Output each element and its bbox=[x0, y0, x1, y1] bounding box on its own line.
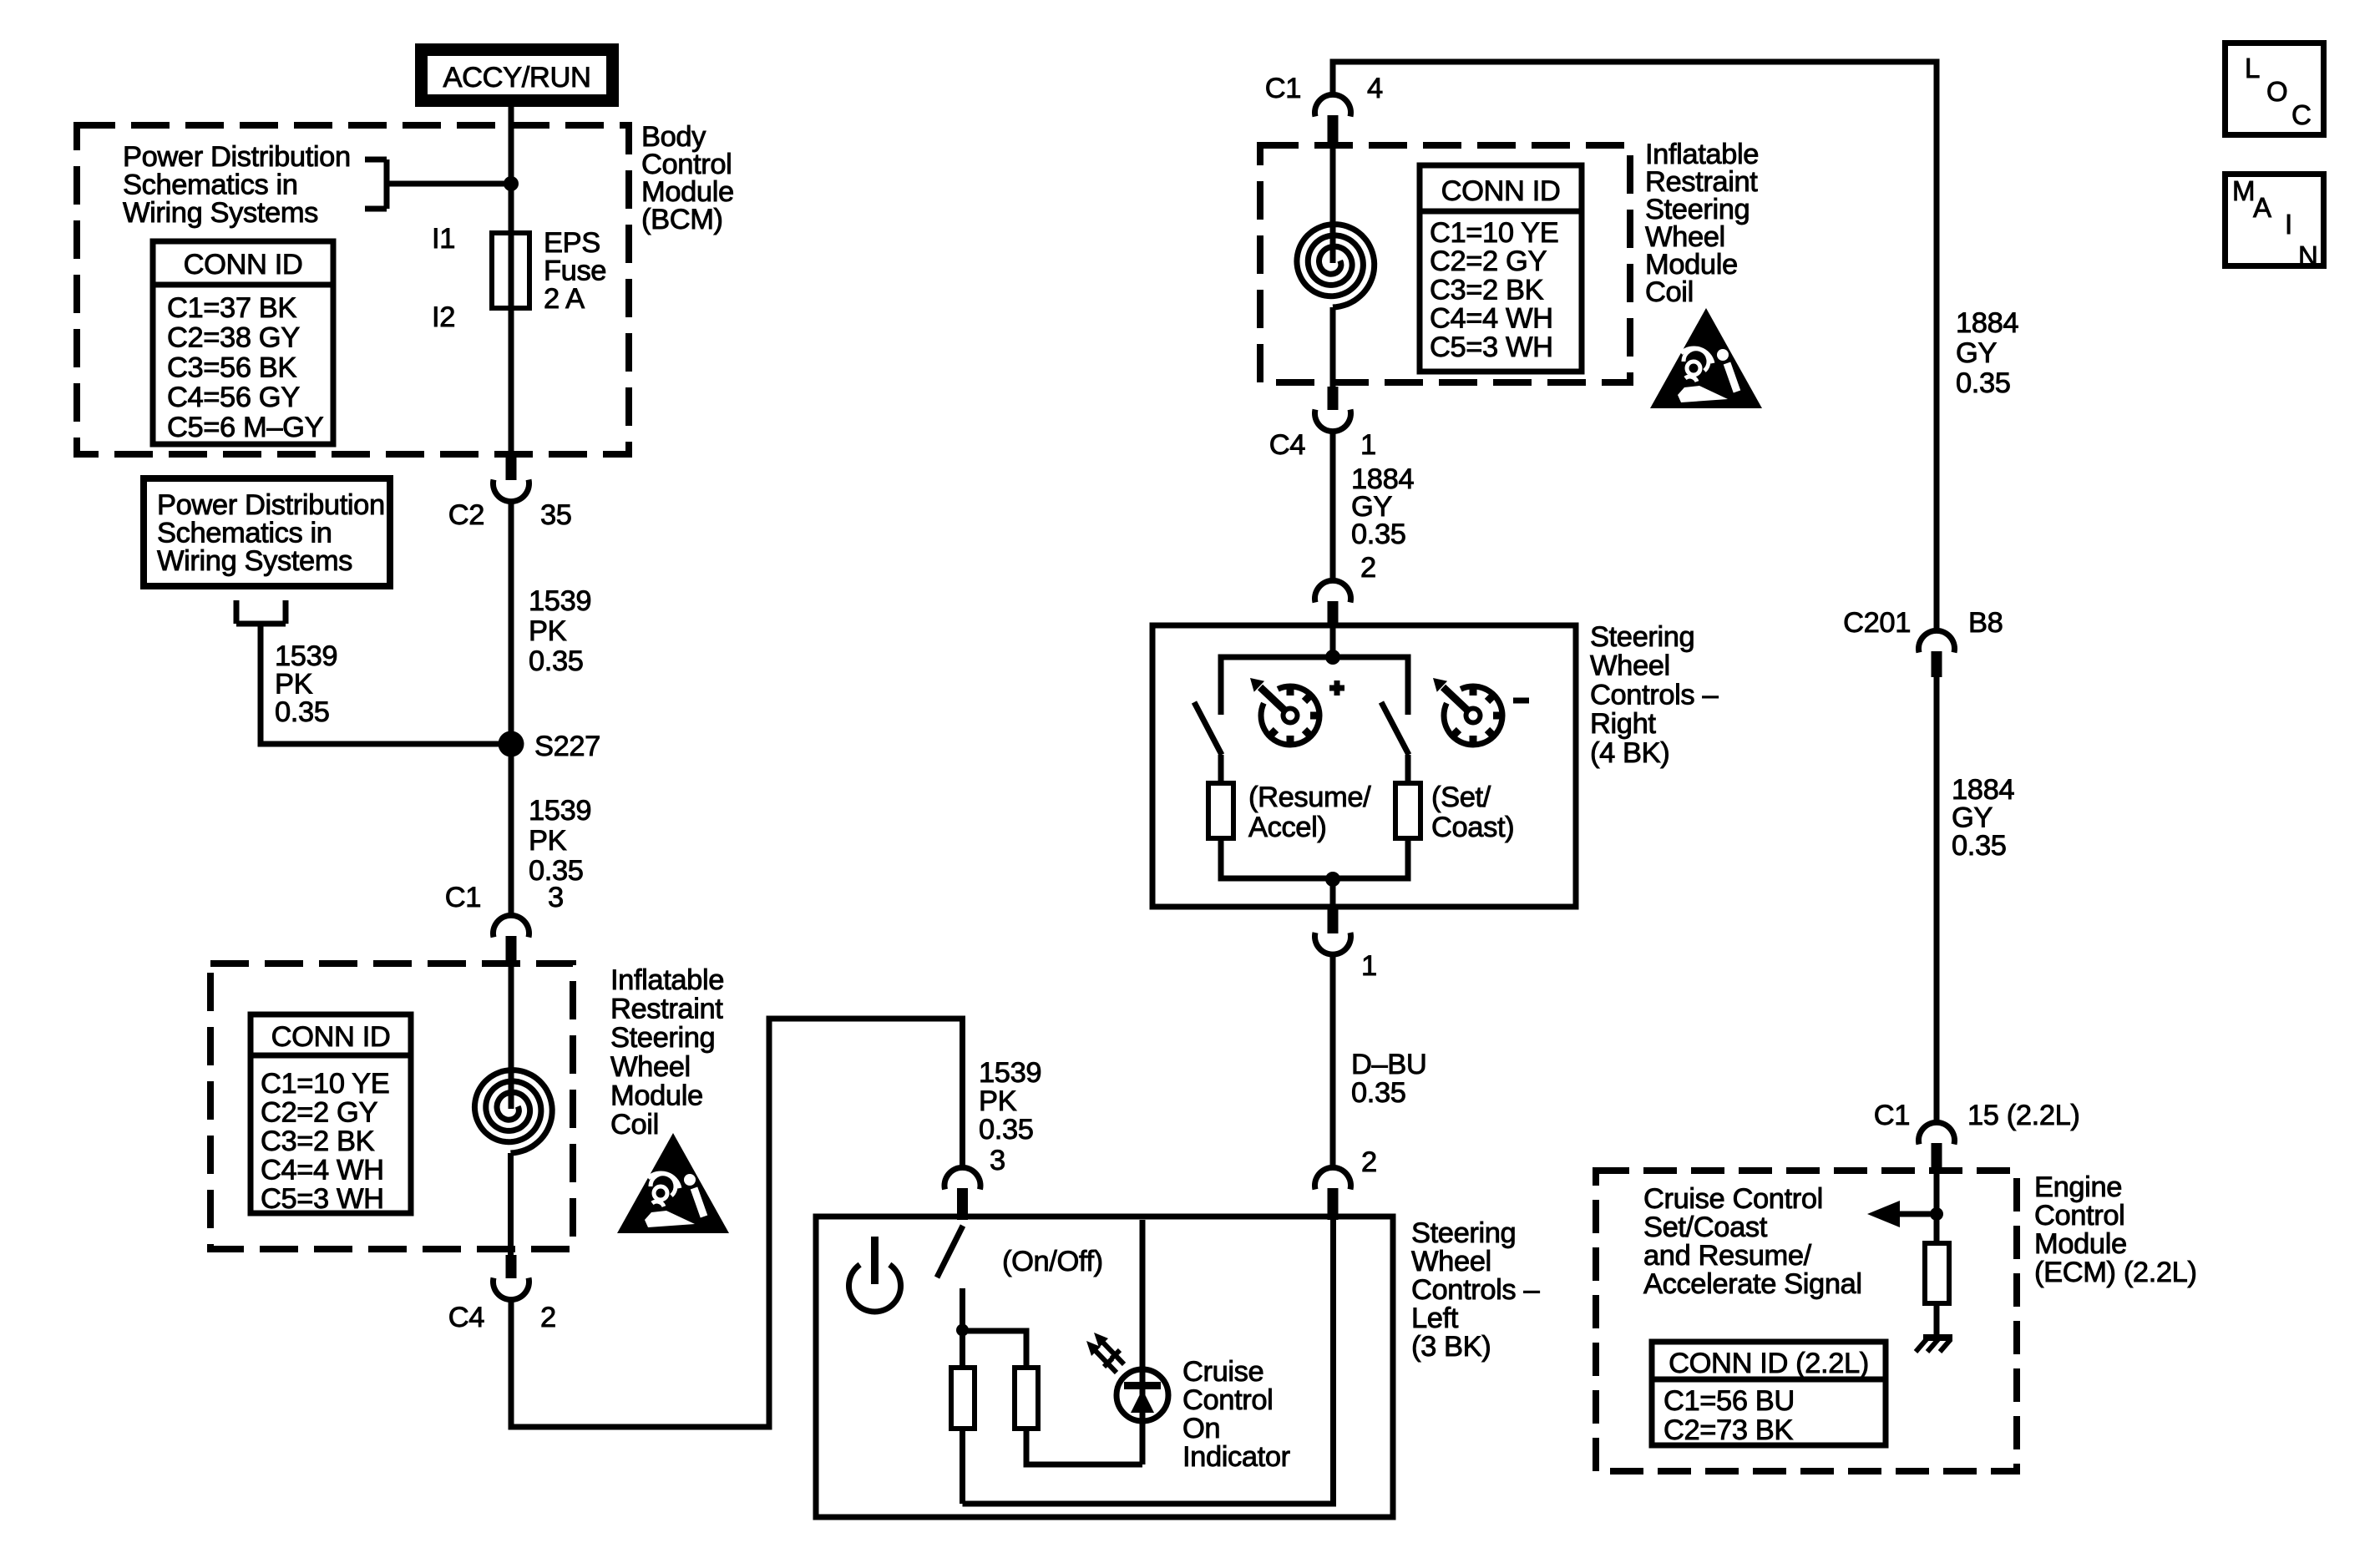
wire out of left coil bbox=[508, 1153, 514, 1255]
svg-text:Schematics in: Schematics in bbox=[157, 518, 332, 549]
wire reference box to S227 bbox=[261, 624, 511, 744]
label EPS Fuse 2 A bbox=[544, 227, 606, 315]
wire into top coil bbox=[1330, 144, 1336, 263]
svg-text:C1: C1 bbox=[445, 882, 481, 913]
svg-text:Steering: Steering bbox=[1590, 621, 1694, 653]
svg-text:Left: Left bbox=[1411, 1303, 1459, 1334]
svg-text:CONN ID: CONN ID bbox=[1441, 175, 1561, 207]
svg-text:Controls –: Controls – bbox=[1590, 679, 1719, 711]
switch blade (set/coast) bbox=[1381, 702, 1409, 755]
svg-text:C2=2 GY: C2=2 GY bbox=[1430, 245, 1547, 277]
svg-text:C2=73 BK: C2=73 BK bbox=[1663, 1414, 1793, 1446]
wire C4 to switch pin 3 bbox=[511, 1019, 963, 1427]
svg-text:CONN ID: CONN ID bbox=[271, 1021, 391, 1053]
svg-text:PK: PK bbox=[529, 825, 567, 857]
svg-text:C2=2 GY: C2=2 GY bbox=[261, 1097, 377, 1129]
svg-text:C: C bbox=[2291, 99, 2311, 130]
label Power Distribution Schematics reference (BCM) bbox=[123, 141, 351, 229]
svg-text:0.35: 0.35 bbox=[1956, 367, 2011, 399]
Steering Wheel Controls Left box bbox=[816, 1217, 1393, 1517]
minus sign bbox=[1513, 698, 1529, 704]
svg-text:C1=56 BU: C1=56 BU bbox=[1663, 1385, 1795, 1417]
svg-text:Coast): Coast) bbox=[1431, 812, 1514, 843]
svg-text:C3=2 BK: C3=2 BK bbox=[261, 1126, 375, 1157]
svg-text:I: I bbox=[2285, 209, 2292, 240]
wire R1 to bottom rail bbox=[960, 1429, 965, 1504]
svg-text:1539: 1539 bbox=[979, 1057, 1041, 1089]
label Engine Control Module (ECM) (2.2L) bbox=[2034, 1171, 2197, 1288]
Inflatable Restraint Steering Wheel Module Coil dashed box (top) bbox=[1260, 145, 1630, 382]
svg-text:Cruise Control: Cruise Control bbox=[1643, 1183, 1823, 1215]
svg-text:O: O bbox=[2266, 76, 2287, 107]
svg-text:B8: B8 bbox=[1968, 607, 2003, 639]
wire pin2 into box bbox=[1330, 625, 1336, 657]
svg-text:Wheel: Wheel bbox=[1590, 650, 1670, 682]
svg-text:(ECM) (2.2L): (ECM) (2.2L) bbox=[2034, 1257, 2197, 1288]
svg-text:EPS: EPS bbox=[544, 227, 600, 259]
svg-text:Wheel: Wheel bbox=[1411, 1246, 1491, 1277]
svg-text:Wiring Systems: Wiring Systems bbox=[123, 197, 318, 229]
svg-text:PK: PK bbox=[979, 1085, 1017, 1117]
CONN ID (2.2L) table bbox=[1652, 1342, 1886, 1446]
resistor R2 bbox=[1015, 1368, 1038, 1429]
svg-text:Accel): Accel) bbox=[1248, 812, 1326, 843]
label Cruise Control On Indicator bbox=[1182, 1356, 1290, 1473]
connector pin 2 (left controls) bbox=[1315, 1167, 1351, 1220]
gauge icon (resume/accel) bbox=[1250, 678, 1321, 746]
svg-text:15 (2.2L): 15 (2.2L) bbox=[1967, 1100, 2079, 1131]
svg-text:2: 2 bbox=[1361, 1146, 1377, 1178]
wire 1884 GY to right controls bbox=[1330, 429, 1336, 581]
power feed box ACCY/RUN bbox=[422, 50, 613, 101]
fuse EPS Fuse 2 A bbox=[492, 233, 529, 308]
junction node (signal tap) bbox=[1930, 1207, 1943, 1221]
svg-text:L: L bbox=[2245, 53, 2260, 83]
svg-text:Controls –: Controls – bbox=[1411, 1274, 1540, 1306]
svg-text:Power Distribution: Power Distribution bbox=[157, 489, 385, 521]
svg-text:C4=4 WH: C4=4 WH bbox=[261, 1155, 384, 1186]
svg-text:Module: Module bbox=[2034, 1228, 2127, 1260]
wire into left coil bbox=[509, 964, 514, 1109]
reference box Power Distribution Schematics in Wiring Systems bbox=[144, 478, 390, 586]
svg-text:Restraint: Restraint bbox=[610, 994, 723, 1025]
svg-text:A: A bbox=[2253, 192, 2271, 223]
resistor (ECM pull) bbox=[1925, 1243, 1949, 1303]
svg-text:M: M bbox=[2232, 175, 2255, 206]
wire D-BU to left controls bbox=[1330, 952, 1336, 1168]
svg-text:(Resume/: (Resume/ bbox=[1248, 782, 1371, 813]
wire 1539 PK S227 to C1 bbox=[509, 744, 514, 916]
CONN ID table (left coil) bbox=[251, 1014, 411, 1215]
svg-text:Wiring Systems: Wiring Systems bbox=[157, 545, 352, 577]
connector C2 pin 35 bbox=[494, 457, 529, 502]
bracket under reference box bbox=[236, 600, 286, 624]
svg-text:2: 2 bbox=[1360, 552, 1376, 584]
connector C1 pin 4 bbox=[1315, 94, 1351, 144]
CONN ID table (BCM) bbox=[153, 241, 333, 444]
svg-text:Control: Control bbox=[1182, 1384, 1273, 1416]
connector pin 1 (right controls) bbox=[1315, 907, 1351, 954]
label 1539 PK 0.35 (branch) bbox=[275, 640, 337, 728]
wire resistor to ground bbox=[1934, 1303, 1940, 1338]
svg-text:Engine: Engine bbox=[2034, 1171, 2122, 1203]
label (Resume/ Accel) bbox=[1248, 782, 1371, 843]
label Inflatable Restraint Steering Wheel Module Coil (top) bbox=[1645, 139, 1759, 308]
svg-text:ACCY/RUN: ACCY/RUN bbox=[443, 62, 591, 94]
resistor R1 bbox=[951, 1368, 975, 1429]
svg-text:Coil: Coil bbox=[1645, 276, 1694, 308]
MAIN box bbox=[2226, 175, 2324, 272]
ground bbox=[1916, 1338, 1952, 1352]
wire node to R1 bbox=[960, 1330, 965, 1368]
svg-text:C3=56 BK: C3=56 BK bbox=[167, 352, 296, 383]
connector pin 3 (switch) bbox=[944, 1167, 980, 1220]
label 1884 GY 0.35 (middle) bbox=[1351, 463, 1414, 550]
svg-text:2: 2 bbox=[540, 1302, 556, 1333]
LED cruise control on indicator bbox=[1117, 1369, 1168, 1421]
Engine Control Module (ECM) dashed box bbox=[1596, 1171, 2017, 1471]
svg-text:C5=6 M–GY: C5=6 M–GY bbox=[167, 412, 324, 443]
wire switch to node bbox=[960, 1288, 965, 1330]
svg-text:C201: C201 bbox=[1843, 607, 1911, 639]
svg-text:C4=56 GY: C4=56 GY bbox=[167, 382, 300, 413]
svg-text:PK: PK bbox=[529, 615, 567, 647]
label 1539 PK 0.35 (upper) bbox=[529, 585, 591, 677]
svg-text:Power Distribution: Power Distribution bbox=[123, 141, 351, 173]
svg-text:C4: C4 bbox=[448, 1302, 485, 1333]
svg-text:(4 BK): (4 BK) bbox=[1590, 737, 1669, 769]
Steering Wheel Controls Right box bbox=[1152, 625, 1576, 907]
svg-text:0.35: 0.35 bbox=[275, 696, 330, 728]
SIR warning triangle (right) bbox=[1650, 308, 1762, 408]
svg-text:1539: 1539 bbox=[529, 795, 591, 827]
svg-text:C1=37 BK: C1=37 BK bbox=[167, 292, 296, 324]
svg-text:0.35: 0.35 bbox=[1351, 518, 1406, 550]
svg-text:C4: C4 bbox=[1269, 429, 1306, 461]
CONN ID table (top coil) bbox=[1420, 165, 1582, 372]
svg-text:Module: Module bbox=[610, 1080, 703, 1111]
wire below right switch bbox=[1405, 755, 1411, 783]
svg-text:I1: I1 bbox=[432, 223, 455, 255]
svg-text:On: On bbox=[1182, 1413, 1220, 1444]
Body Control Module (BCM) dashed box bbox=[77, 125, 629, 454]
svg-text:(Set/: (Set/ bbox=[1431, 782, 1491, 813]
svg-text:0.35: 0.35 bbox=[1351, 1077, 1406, 1109]
svg-text:Indicator: Indicator bbox=[1182, 1441, 1290, 1473]
label Inflatable Restraint Steering Wheel Module Coil (left) bbox=[610, 964, 724, 1141]
connector pin 2 (right controls) bbox=[1315, 580, 1351, 628]
svg-text:Schematics in: Schematics in bbox=[123, 169, 298, 201]
label D-BU 0.35 bbox=[1351, 1049, 1426, 1109]
label Body Control Module (BCM) bbox=[641, 121, 734, 235]
svg-text:Steering: Steering bbox=[610, 1022, 715, 1054]
label Steering Wheel Controls Left (3 BK) bbox=[1411, 1217, 1540, 1363]
wire LED branch bbox=[1140, 1220, 1146, 1464]
wire 1539 PK C2 to S227 bbox=[509, 499, 514, 744]
svg-text:Coil: Coil bbox=[610, 1109, 659, 1141]
wire to pin 1 bbox=[1330, 879, 1336, 907]
svg-text:C1=10 YE: C1=10 YE bbox=[1430, 217, 1558, 249]
signal arrow bbox=[1867, 1201, 1937, 1227]
label Cruise Control Set/Coast and Resume/Accelerate Signal bbox=[1643, 1183, 1862, 1300]
wire node to R2 bbox=[963, 1331, 1027, 1368]
label Steering Wheel Controls Right (4 BK) bbox=[1590, 621, 1719, 769]
switch blade (resume/accel) bbox=[1194, 702, 1222, 755]
svg-text:Accelerate Signal: Accelerate Signal bbox=[1643, 1268, 1862, 1300]
svg-text:3: 3 bbox=[990, 1145, 1005, 1176]
wire top feed bbox=[1333, 62, 1937, 631]
label 1539 PK 0.35 (to switch) bbox=[979, 1057, 1041, 1146]
gauge icon (set/coast) bbox=[1433, 678, 1504, 746]
wire ACCY/RUN to EPS fuse bbox=[509, 107, 514, 233]
svg-text:C5=3 WH: C5=3 WH bbox=[1430, 331, 1553, 363]
svg-text:CONN ID (2.2L): CONN ID (2.2L) bbox=[1669, 1348, 1869, 1379]
plus sign bbox=[1329, 680, 1344, 696]
svg-text:C5=3 WH: C5=3 WH bbox=[261, 1183, 384, 1215]
svg-text:and Resume/: and Resume/ bbox=[1643, 1240, 1812, 1272]
wire R2 to LED branch bbox=[1026, 1429, 1142, 1464]
label 1539 PK 0.35 (lower) bbox=[529, 795, 591, 887]
connector C1 pin 3 bbox=[493, 915, 529, 964]
svg-text:Control: Control bbox=[2034, 1200, 2124, 1232]
svg-text:C2=38 GY: C2=38 GY bbox=[167, 322, 300, 354]
junction node (resistor divider) bbox=[956, 1324, 969, 1337]
resistor (set/coast) bbox=[1395, 783, 1420, 838]
svg-text:C3=2 BK: C3=2 BK bbox=[1430, 274, 1544, 306]
connector C4 pin 2 bbox=[493, 1255, 529, 1300]
svg-text:Right: Right bbox=[1590, 708, 1656, 740]
LED emission arrows bbox=[1086, 1333, 1124, 1373]
connector C4 pin 1 bbox=[1315, 387, 1351, 432]
bracket to Power Distribution reference bbox=[365, 159, 387, 209]
wire bracket to node bbox=[387, 181, 511, 187]
svg-text:C4=4 WH: C4=4 WH bbox=[1430, 303, 1553, 335]
label 1884 GY 0.35 (lower right) bbox=[1952, 774, 2014, 862]
svg-text:PK: PK bbox=[275, 669, 313, 701]
wire left resistor to bus bbox=[1221, 838, 1333, 878]
svg-text:0.35: 0.35 bbox=[1952, 830, 2007, 862]
svg-text:C1=10 YE: C1=10 YE bbox=[261, 1068, 389, 1100]
wire C201 to ECM bbox=[1934, 677, 1940, 1124]
resistor (resume/accel) bbox=[1208, 783, 1233, 838]
svg-text:(BCM): (BCM) bbox=[641, 204, 723, 235]
svg-text:GY: GY bbox=[1956, 337, 1997, 369]
coil spiral (top) bbox=[1297, 225, 1375, 307]
label 1884 GY 0.35 (top right) bbox=[1956, 307, 2018, 399]
wire right resistor to bus bbox=[1333, 838, 1408, 878]
svg-text:Fuse: Fuse bbox=[544, 255, 606, 287]
svg-text:Inflatable: Inflatable bbox=[610, 964, 724, 996]
svg-text:2 A: 2 A bbox=[544, 283, 585, 315]
label (Set/ Coast) bbox=[1431, 782, 1514, 843]
junction node (bottom of switches) bbox=[1325, 872, 1340, 887]
SIR warning triangle (left) bbox=[617, 1133, 729, 1233]
svg-text:C1: C1 bbox=[1874, 1100, 1910, 1131]
svg-text:4: 4 bbox=[1367, 73, 1383, 104]
svg-text:1539: 1539 bbox=[275, 640, 337, 672]
wire below left switch bbox=[1218, 755, 1224, 783]
svg-text:0.35: 0.35 bbox=[529, 645, 584, 677]
wire into ECM bbox=[1934, 1168, 1940, 1243]
svg-text:1: 1 bbox=[1361, 950, 1377, 982]
svg-text:CONN ID: CONN ID bbox=[184, 249, 303, 281]
svg-text:C2: C2 bbox=[448, 499, 484, 531]
power on/off icon bbox=[849, 1237, 901, 1312]
svg-text:D–BU: D–BU bbox=[1351, 1049, 1426, 1080]
svg-text:3: 3 bbox=[548, 882, 564, 913]
connector C1 pin 15 bbox=[1919, 1122, 1955, 1170]
svg-text:S227: S227 bbox=[534, 731, 600, 762]
svg-text:Wheel: Wheel bbox=[610, 1051, 691, 1083]
junction node (top of switches) bbox=[1325, 650, 1340, 665]
svg-text:Steering: Steering bbox=[1411, 1217, 1516, 1249]
Inflatable Restraint Steering Wheel Module Coil dashed box (left) bbox=[210, 964, 573, 1249]
wire switch bus top bbox=[1221, 657, 1408, 715]
LOC box bbox=[2226, 43, 2324, 135]
svg-text:GY: GY bbox=[1952, 802, 1993, 834]
connector C201 pin B8 bbox=[1919, 630, 1955, 677]
svg-text:1539: 1539 bbox=[529, 585, 591, 617]
junction node at fuse feed bbox=[504, 176, 519, 191]
svg-text:Set/Coast: Set/Coast bbox=[1643, 1211, 1768, 1243]
svg-text:(On/Off): (On/Off) bbox=[1002, 1246, 1103, 1277]
svg-text:(3 BK): (3 BK) bbox=[1411, 1331, 1491, 1363]
coil spiral (left) bbox=[474, 1070, 552, 1153]
svg-text:C1: C1 bbox=[1265, 73, 1301, 104]
switch blade (on/off) bbox=[937, 1226, 963, 1277]
wire fuse to C2 bbox=[509, 308, 514, 457]
svg-text:0.35: 0.35 bbox=[979, 1114, 1034, 1146]
svg-text:1884: 1884 bbox=[1956, 307, 2018, 339]
splice S227 bbox=[499, 731, 524, 757]
wire out of top coil bbox=[1330, 307, 1336, 387]
svg-text:Cruise: Cruise bbox=[1182, 1356, 1263, 1388]
svg-text:1: 1 bbox=[1360, 429, 1376, 461]
svg-text:1884: 1884 bbox=[1952, 774, 2014, 806]
bottom rail wire bbox=[963, 1220, 1334, 1504]
svg-text:I2: I2 bbox=[432, 301, 455, 333]
svg-text:35: 35 bbox=[540, 499, 572, 531]
svg-text:N: N bbox=[2298, 240, 2317, 271]
